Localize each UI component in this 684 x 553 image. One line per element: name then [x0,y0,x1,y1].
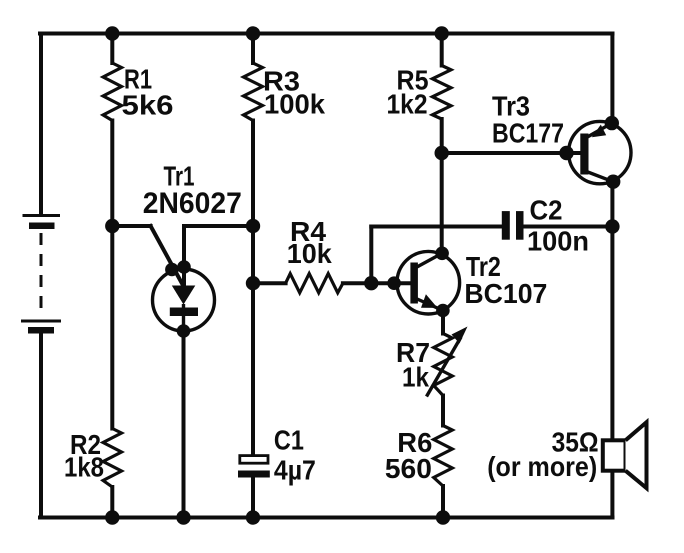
transistor Tr3 circle (BC177) [569,121,631,183]
Tr1 cathode bar [170,308,198,317]
node Tr1 cathode exit [177,324,191,338]
node Tr2 base entry [387,276,401,290]
wire Tr1 cathode to bottom rail [182,331,186,518]
node R3 / R4 junction [246,276,260,290]
wire R1-R2 middle segment [110,121,114,429]
resistor R6 [434,426,453,487]
resistor R2 [103,429,121,488]
wire Tr1 anode vertical [182,226,186,286]
wire top rail [40,32,613,36]
wire Tr3 base from R5 junction [442,151,581,155]
wire R3 to C1 segment [251,121,255,456]
capacitor C2 right plate [516,211,524,240]
capacitor C1 bottom plate (solid) [238,471,270,478]
node R1/R2/gate junction [105,219,119,233]
node R5 / Tr3 base junction [435,146,449,160]
svg-text:560: 560 [385,453,432,484]
svg-text:1k8: 1k8 [64,452,104,483]
speaker driver rectangle [603,440,626,470]
wire left rail upper (top rail to battery) [39,34,43,215]
wire R4 right to Tr2 base [343,281,412,285]
wire C2 feedback vertical [369,227,373,284]
svg-text:(or more): (or more) [487,451,597,482]
node bottom rail / R2 [105,510,119,524]
svg-text:100n: 100n [527,226,589,257]
wire C1 to bottom rail [251,478,255,518]
node Tr1 anode entry [177,260,191,274]
node Tr3 base entry [559,146,573,160]
node Tr2 emitter [436,304,450,318]
R7 wiper arrowhead [452,327,468,344]
capacitor C2 left plate [502,211,510,240]
wire right rail lower (speaker to bottom rail) [610,471,614,518]
node C2 / right rail [605,219,619,233]
battery cell 1 short thick plate [29,223,55,230]
svg-text:10k: 10k [287,238,332,269]
transistor Tr1 circle (2N6027 PUT) [153,269,215,331]
svg-text:2N6027: 2N6027 [143,187,242,220]
node Tr1 anode / R3 junction [246,219,260,233]
wire left rail lower (battery to bottom rail) [39,333,43,518]
node bottom rail / C1 [246,510,260,524]
resistor R5 [432,66,451,120]
wire R2 bottom stub [110,487,114,518]
wire Tr1 gate horizontal [112,224,150,228]
speaker horn [626,422,647,488]
svg-text:5k6: 5k6 [122,90,174,121]
svg-text:4µ7: 4µ7 [274,455,316,486]
battery cell 1 long plate [23,214,61,217]
Tr2 emitter arrowhead [421,294,438,308]
wire right rail upper (top rail to Tr3 emitter) [610,34,614,124]
resistor R3 [244,63,263,121]
Tr3 emitter line [587,123,612,137]
wire R5 bottom to Tr2 collector [440,119,444,253]
wire R4 left stub [253,281,286,285]
Tr1 anode triangle [172,286,196,305]
svg-text:BC107: BC107 [464,278,547,309]
battery dashed link [40,233,43,317]
node top rail / R5 [435,26,449,40]
svg-text:100k: 100k [264,89,325,120]
wire R7 to R6 [441,396,445,426]
Tr3 base bar [580,134,588,175]
node bottom rail / R6 [436,510,450,524]
node top rail / R1 [105,26,119,40]
wire Tr1 anode horizontal to R3 column [184,224,253,228]
Tr3 collector line [587,172,614,182]
transistor Tr2 circle (BC107) [397,251,460,314]
battery cell 2 short thick plate [28,327,54,334]
wire bottom rail [40,516,613,520]
wire Tr1 gate diagonal [151,226,184,286]
node Tr2 base junction (C2 tap) [364,276,378,290]
wire C2 right horizontal [524,225,613,229]
wire R3 top stub [251,34,255,64]
node Tr3 emitter / right rail [605,116,619,130]
svg-text:C2: C2 [530,195,563,226]
node Tr2 collector [435,247,449,261]
Tr2 base bar [410,263,418,304]
svg-text:1k: 1k [402,362,429,393]
svg-text:C1: C1 [274,425,304,456]
resistor R4 (horizontal) [286,274,343,293]
wire R1 top stub [110,34,114,64]
wire R5 top stub [440,34,444,66]
wire right rail mid (Tr3 collector to speaker) [610,182,614,441]
wire R6 to bottom rail [441,486,445,518]
node Tr3 collector / right rail [606,175,620,189]
wire C2 left horizontal [371,225,502,229]
svg-text:1k2: 1k2 [387,89,428,120]
resistor R7 (variable) [434,334,453,396]
node Tr1 gate entry [165,263,179,277]
Tr2 collector line [416,253,442,267]
node top rail / R3 [246,26,260,40]
node bottom rail / Tr1 cathode [176,510,190,524]
svg-text:BC177: BC177 [492,118,564,149]
Tr1 cathode stem [182,304,185,331]
resistor R1 [103,63,121,121]
Tr3 emitter arrowhead [592,125,606,138]
R7 wiper arrow line [427,337,462,397]
battery cell 2 long plate [21,320,61,323]
wire Tr2 emitter to R7 [441,311,445,334]
Tr2 emitter line [416,299,443,311]
capacitor C1 top plate (hollow) [240,456,268,464]
